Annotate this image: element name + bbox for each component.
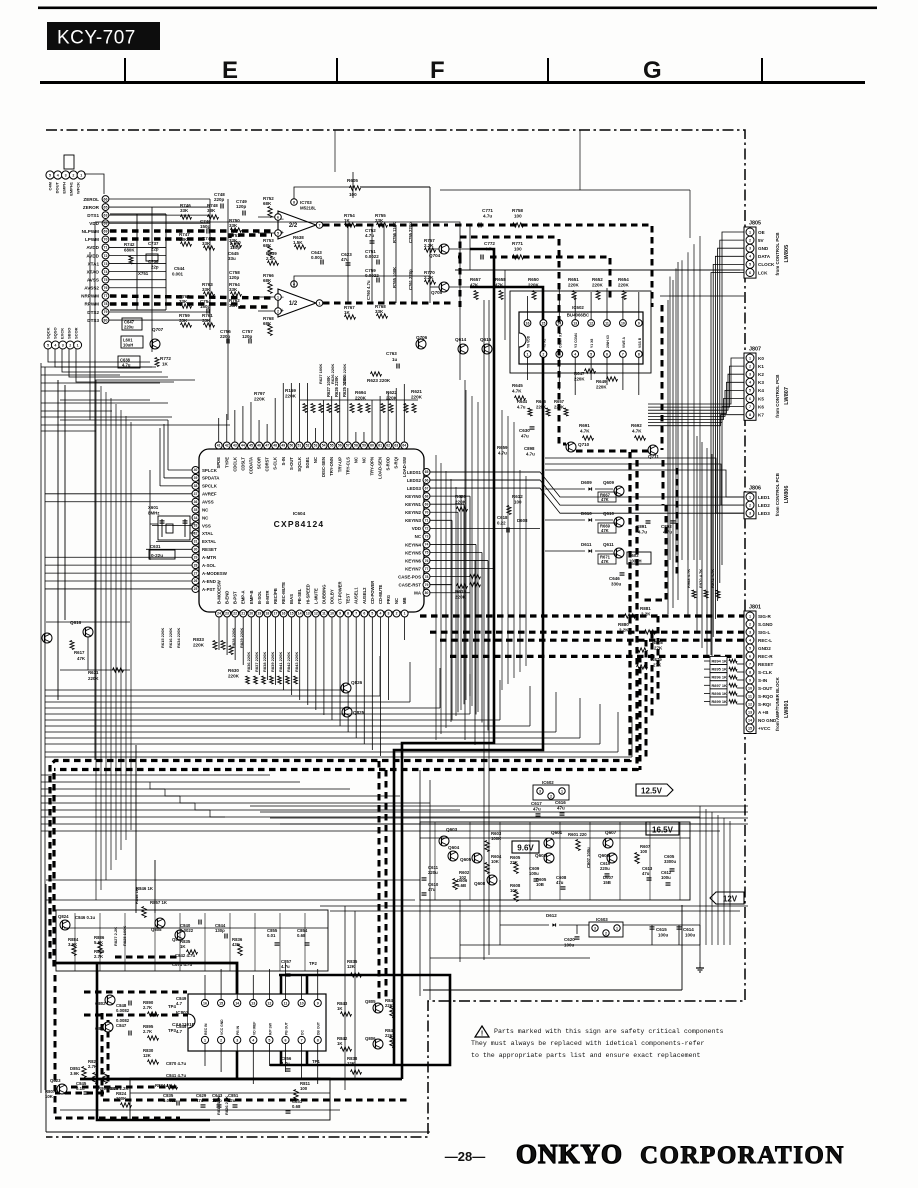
svg-text:4: 4: [574, 352, 576, 356]
svg-text:53: 53: [314, 444, 318, 448]
svg-text:2: 2: [605, 931, 607, 935]
R857 riser wire: [154, 860, 156, 913]
svg-text:R601 220: R601 220: [568, 832, 587, 837]
wire: [460, 495, 462, 710]
wire: [320, 905, 748, 907]
wire: [260, 811, 748, 813]
svg-text:220K: 220K: [596, 385, 607, 390]
svg-text:R970 4.7K: R970 4.7K: [698, 569, 703, 588]
svg-text:Q616: Q616: [70, 620, 82, 625]
wire: [483, 300, 485, 960]
svg-text:47K: 47K: [601, 528, 609, 533]
svg-text:73: 73: [104, 262, 108, 266]
svg-text:R650: R650: [528, 277, 539, 282]
D611 row wires: [545, 550, 585, 552]
svg-text:KEYIN5: KEYIN5: [405, 550, 421, 555]
svg-text:8: 8: [317, 1038, 319, 1042]
svg-text:R843 220K: R843 220K: [294, 652, 299, 672]
switch block dashed loop: [559, 239, 566, 444]
svg-text:SPDE: SPDE: [216, 457, 221, 469]
svg-text:SPLCK: SPLCK: [202, 468, 218, 473]
svg-text:K3: K3: [758, 380, 764, 385]
svg-text:RESET: RESET: [758, 662, 774, 667]
left block risers: [209, 199, 211, 330]
svg-text:71: 71: [104, 246, 108, 250]
svg-text:K4: K4: [758, 388, 764, 393]
IC604 pin 27 A-MODESW: [192, 570, 199, 577]
top-right dashed bus 1: [455, 225, 652, 307]
wire: [430, 957, 590, 959]
safety warning triangle: [475, 1026, 489, 1037]
svg-text:4.7K: 4.7K: [512, 389, 522, 394]
svg-text:LCK: LCK: [758, 270, 768, 275]
svg-text:XTAO: XTAO: [87, 269, 100, 274]
J801 pin 4 REC-L: [746, 636, 754, 644]
wire: [440, 463, 442, 734]
IC803 pin 11: [282, 999, 289, 1006]
power cluster rails: [434, 822, 436, 900]
IC604 pin 38 SPCLK: [192, 482, 199, 489]
svg-text:1: 1: [561, 789, 563, 793]
svg-text:ZEROL: ZEROL: [83, 197, 99, 202]
svg-text:AVREF: AVREF: [202, 492, 217, 497]
svg-text:68: 68: [425, 494, 429, 498]
svg-text:R649: R649: [596, 379, 607, 384]
wire: [439, 668, 441, 708]
svg-text:R159: R159: [285, 388, 296, 393]
IC604 pin 57 TRY-CLS: [344, 442, 351, 449]
svg-text:SBSO: SBSO: [67, 328, 72, 339]
svg-text:Q704: Q704: [429, 253, 441, 258]
svg-text:from CONTROL PCB: from CONTROL PCB: [775, 375, 780, 418]
svg-text:1: 1: [277, 295, 279, 299]
svg-text:6: 6: [363, 612, 365, 616]
transistor Q711: [648, 445, 658, 455]
IC803 pin 16: [201, 999, 208, 1006]
svg-text:100: 100: [300, 1086, 308, 1091]
svg-text:14: 14: [235, 1001, 239, 1005]
wire: [488, 300, 490, 955]
svg-text:2: 2: [550, 794, 552, 798]
wire: [450, 479, 452, 722]
IC604 pin 18 B-MTR: [264, 610, 271, 617]
svg-text:30: 30: [194, 548, 198, 552]
wire: [677, 262, 679, 600]
svg-text:18: 18: [266, 612, 270, 616]
svg-text:15B: 15B: [603, 880, 611, 885]
svg-text:74: 74: [425, 543, 429, 547]
IC604 pin 79 CASE-RST: [423, 581, 430, 588]
svg-text:R879: R879: [651, 657, 662, 662]
svg-text:DOUT: DOUT: [55, 181, 60, 193]
svg-text:XTAL: XTAL: [202, 531, 213, 536]
wire: [455, 487, 457, 716]
svg-text:TP1: TP1: [312, 1059, 320, 1064]
svg-text:D609: D609: [581, 480, 592, 485]
IC604 pin 7 AUSEL1: [353, 610, 360, 617]
svg-text:47: 47: [265, 444, 269, 448]
transistor Q608: [487, 875, 497, 885]
svg-text:D608: D608: [517, 518, 528, 523]
svg-text:1: 1: [404, 612, 406, 616]
IC604 pin 11 DUBBING: [320, 610, 327, 617]
svg-text:SIG-R: SIG-R: [758, 614, 771, 619]
svg-text:10K: 10K: [491, 859, 500, 864]
svg-text:7: 7: [301, 1038, 303, 1042]
svg-text:R652: R652: [592, 277, 603, 282]
svg-text:36: 36: [194, 500, 198, 504]
svg-text:R651: R651: [568, 277, 579, 282]
svg-text:12K: 12K: [143, 1053, 152, 1058]
wire: [419, 770, 421, 996]
svg-text:1K: 1K: [162, 362, 169, 367]
svg-text:2/2: 2/2: [289, 223, 298, 229]
wire: [195, 803, 210, 810]
IC604 pin 46 SCOR: [256, 442, 263, 449]
svg-text:EXCK: EXCK: [60, 328, 65, 339]
svg-text:REC/PB: REC/PB: [273, 588, 278, 604]
svg-text:5: 5: [749, 646, 751, 650]
svg-text:R692: R692: [631, 423, 642, 428]
wire: [471, 396, 473, 706]
svg-text:IC604: IC604: [293, 511, 306, 516]
pin column right wires: [109, 198, 210, 200]
IC604 pin 63 S-RQI: [393, 442, 400, 449]
DSP connector wire: [84, 174, 104, 194]
svg-text:Q706: Q706: [416, 335, 428, 340]
J805 pin 6 LCK: [746, 269, 754, 277]
svg-text:R634 220K: R634 220K: [176, 628, 181, 648]
IC604 pin 76 KEYIN6: [423, 557, 430, 564]
svg-text:46: 46: [257, 444, 261, 448]
IC602 pin 12: [588, 320, 595, 327]
svg-text:0.0082: 0.0082: [116, 1008, 130, 1013]
svg-text:12: 12: [748, 702, 752, 706]
svg-text:150p: 150p: [200, 224, 211, 229]
svg-text:S-RQI: S-RQI: [758, 702, 771, 707]
svg-text:2: 2: [220, 1038, 222, 1042]
svg-text:76: 76: [425, 559, 429, 563]
svg-text:D612: D612: [546, 913, 557, 918]
wire: [409, 662, 411, 702]
svg-text:VD IREF: VD IREF: [252, 1022, 256, 1035]
svg-text:9.6V: 9.6V: [517, 843, 534, 852]
svg-text:R616 220K: R616 220K: [168, 628, 173, 648]
transistor Q707: [150, 339, 160, 349]
IC604 pin 31 EXTAL: [192, 538, 199, 545]
transistor Q614: [458, 344, 468, 354]
top-right dashed bus 2: [458, 237, 559, 257]
svg-text:8: 8: [749, 413, 751, 417]
IC604 pin 10 DOLBY: [328, 610, 335, 617]
svg-text:220K: 220K: [568, 283, 580, 288]
IC602 pin 8: [635, 351, 642, 358]
op-amp output buses: [323, 224, 448, 227]
svg-text:B-SOL: B-SOL: [257, 591, 262, 604]
svg-text:4: 4: [54, 343, 56, 347]
wire: [687, 252, 689, 560]
nested routing rectangles upper: [95, 222, 460, 380]
svg-text:NC: NC: [202, 507, 209, 512]
svg-text:7: 7: [622, 352, 624, 356]
svg-text:R657: R657: [554, 399, 565, 404]
svg-text:72: 72: [104, 254, 108, 258]
op-amp feedback wires: [294, 187, 353, 199]
svg-text:10B: 10B: [536, 882, 544, 887]
IC U803 CXA1101P body: [188, 994, 326, 1051]
IC604 pin 9 CT-POWER: [337, 610, 344, 617]
IC604 right pin wires: [430, 471, 540, 473]
svg-text:R621: R621: [411, 389, 422, 394]
svg-text:34: 34: [194, 516, 198, 520]
svg-text:OE: OE: [758, 230, 765, 235]
svg-text:GND2: GND2: [758, 646, 771, 651]
svg-text:35: 35: [194, 508, 198, 512]
wire: [60, 399, 150, 401]
svg-text:0.68: 0.68: [297, 933, 306, 938]
svg-text:C842 4.7u: C842 4.7u: [175, 953, 195, 958]
svg-text:32: 32: [194, 532, 198, 536]
svg-text:22: 22: [233, 612, 237, 616]
svg-text:24: 24: [217, 612, 221, 616]
IC604 pin 74 KEYIN4: [423, 541, 430, 548]
J806 harness wires: [545, 470, 744, 497]
svg-text:44: 44: [241, 444, 245, 448]
svg-text:7: 7: [355, 612, 357, 616]
svg-text:Q711: Q711: [648, 454, 659, 459]
svg-text:Q824: Q824: [58, 914, 69, 919]
transistor Q706: [416, 339, 426, 349]
svg-text:69: 69: [104, 230, 108, 234]
svg-text:R658: R658: [495, 277, 506, 282]
svg-text:69: 69: [425, 502, 429, 506]
wire: [250, 805, 748, 807]
J801 pin 3 SIG-L: [746, 628, 754, 636]
svg-text:3.9K: 3.9K: [70, 1071, 80, 1076]
svg-text:C847: C847: [116, 1023, 127, 1028]
svg-text:63: 63: [104, 213, 108, 217]
svg-text:100: 100: [640, 849, 648, 854]
voltage callout 12.5V: [636, 784, 673, 796]
svg-text:Q823: Q823: [50, 1078, 61, 1083]
IC803 pin 8: [314, 1036, 321, 1043]
inductor L601 10uH: [121, 336, 143, 348]
svg-text:AVSS2: AVSS2: [84, 286, 99, 291]
IC604 pin 78 CASE-POS: [423, 573, 430, 580]
svg-text:GND: GND: [758, 246, 769, 251]
svg-text:4.7K: 4.7K: [580, 429, 590, 434]
svg-text:5: 5: [749, 389, 751, 393]
svg-text:47u: 47u: [533, 807, 541, 812]
IC604 pin 32 XTAL: [192, 530, 199, 537]
svg-text:11: 11: [284, 1001, 288, 1005]
svg-text:20: 20: [249, 612, 253, 616]
svg-text:11: 11: [605, 321, 609, 325]
J801 pin 13 A +B: [746, 708, 754, 716]
DSP top connector: [46, 171, 54, 179]
svg-text:S-ROD: S-ROD: [386, 457, 391, 471]
svg-text:K7: K7: [758, 413, 764, 418]
column tick 4: [761, 58, 763, 81]
svg-text:C898: C898: [524, 446, 535, 451]
wire: [45, 743, 600, 745]
voltage callout 16.5V: [646, 822, 679, 835]
svg-text:LED2: LED2: [758, 503, 770, 508]
IC604 pin 1 MB: [401, 610, 408, 617]
svg-text:12: 12: [267, 1001, 271, 1005]
svg-text:1K: 1K: [337, 1041, 343, 1046]
main dashed bus pair horizontal: [50, 452, 630, 765]
svg-text:9: 9: [317, 1001, 319, 1005]
svg-text:C738: C738: [148, 259, 159, 264]
svg-text:TYPE: TYPE: [224, 457, 229, 468]
IC602 pin 1: [524, 351, 531, 358]
svg-text:NC: NC: [415, 534, 422, 539]
svg-text:C772: C772: [484, 241, 495, 246]
svg-text:BIAS: BIAS: [289, 594, 294, 604]
svg-text:10K: 10K: [510, 888, 519, 893]
svg-text:PB OUT: PB OUT: [285, 1021, 289, 1035]
svg-text:AVDD: AVDD: [86, 253, 99, 258]
svg-text:5: 5: [590, 352, 592, 356]
IC604 pin 52 SGB1: [304, 442, 311, 449]
svg-text:C630: C630: [519, 428, 530, 433]
column tick 3: [547, 58, 549, 81]
IC803 pin 10: [298, 999, 305, 1006]
svg-text:R691: R691: [579, 423, 590, 428]
IC604 pin 35 NC: [192, 506, 199, 513]
svg-text:R838 220K: R838 220K: [262, 652, 267, 672]
svg-text:EMPH1: EMPH1: [69, 181, 74, 196]
svg-text:31: 31: [194, 540, 198, 544]
svg-text:Q805: Q805: [365, 999, 376, 1004]
svg-text:49: 49: [281, 444, 285, 448]
IC604 pin 34 NC: [192, 514, 199, 521]
svg-text:CORPORATION: CORPORATION: [640, 1142, 845, 1169]
wire: [455, 269, 744, 271]
wire: [354, 911, 356, 1080]
wire: [344, 906, 346, 1090]
J806 pin 1 LED1: [746, 493, 754, 501]
IC602 pin 16: [524, 320, 531, 327]
svg-text:220u: 220u: [428, 870, 438, 875]
wire: [45, 689, 345, 691]
svg-text:F: F: [430, 57, 445, 84]
svg-text:CASE-POS: CASE-POS: [398, 574, 421, 579]
middle dashed risers: [662, 460, 665, 505]
svg-text:KEYIN4: KEYIN4: [405, 542, 421, 547]
transistor Q607: [603, 838, 613, 848]
svg-text:220K: 220K: [285, 394, 297, 399]
wire: [525, 476, 527, 666]
svg-text:R827 2.2K: R827 2.2K: [113, 927, 118, 946]
svg-text:Q610: Q610: [603, 511, 615, 516]
IC604 pin 28 A-SOL: [192, 562, 199, 569]
svg-text:33K: 33K: [202, 241, 211, 246]
svg-text:R857 1K: R857 1K: [150, 900, 168, 905]
svg-text:11: 11: [322, 612, 326, 616]
svg-text:59: 59: [362, 444, 366, 448]
svg-text:23: 23: [225, 612, 229, 616]
svg-text:13: 13: [573, 321, 577, 325]
svg-text:12K: 12K: [347, 1061, 356, 1066]
svg-text:8: 8: [293, 200, 295, 204]
svg-text:78: 78: [425, 575, 429, 579]
svg-text:EMPH: EMPH: [62, 182, 67, 194]
resistor row bus wire: [455, 269, 740, 271]
bus RPWM dashed: [110, 304, 272, 307]
IC602 pin restamp over bus: [540, 320, 547, 327]
svg-text:R645: R645: [512, 383, 523, 388]
svg-text:62: 62: [386, 444, 390, 448]
wire: [46, 879, 420, 881]
svg-text:R968 4.7K: R968 4.7K: [686, 569, 691, 588]
main solid bus top feeds: [470, 249, 494, 302]
svg-text:71: 71: [425, 519, 429, 523]
svg-text:SQSO: SQSO: [53, 327, 58, 339]
wire: [41, 816, 700, 818]
J807 pin 4 K3: [746, 378, 754, 386]
resistor R667 47K: [598, 492, 616, 502]
svg-text:LW806: LW806: [784, 485, 790, 503]
svg-text:R659: R659: [497, 445, 508, 450]
svg-text:R622: R622: [386, 390, 397, 395]
wire: [41, 788, 350, 790]
wire: [45, 719, 500, 721]
svg-text:B-MTR: B-MTR: [265, 591, 270, 605]
svg-text:S-IN: S-IN: [758, 678, 768, 683]
svg-text:33u: 33u: [228, 256, 236, 261]
Q616 wires: [46, 621, 130, 623]
svg-text:130p: 130p: [215, 928, 225, 933]
wire x95 long riser: [94, 360, 96, 760]
svg-text:S-RQI: S-RQI: [394, 457, 399, 469]
svg-text:8: 8: [347, 612, 349, 616]
J801 pin 8 S-CLK: [746, 668, 754, 676]
svg-text:2.7K: 2.7K: [88, 1064, 98, 1069]
svg-text:R627 100K: R627 100K: [318, 364, 323, 384]
left frame vertical: [45, 884, 47, 1132]
svg-text:CXP84124: CXP84124: [274, 519, 325, 529]
wire: [45, 713, 470, 715]
svg-text:LED3: LED3: [758, 511, 770, 516]
svg-text:Q826: Q826: [351, 680, 363, 685]
wire: [669, 277, 671, 561]
svg-text:100: 100: [514, 247, 522, 252]
svg-text:WFCK: WFCK: [76, 182, 81, 194]
IC604 pin 12 L-MUTE: [312, 610, 319, 617]
svg-text:100: 100: [349, 192, 357, 197]
svg-text:7: 7: [749, 405, 751, 409]
connector J805: [744, 227, 756, 278]
transistor Q616: [83, 627, 93, 637]
wire: [729, 821, 731, 945]
svg-text:DB OUT: DB OUT: [317, 1021, 321, 1035]
svg-text:47u: 47u: [196, 1098, 204, 1103]
IC604 pin 21 EMP-A: [240, 610, 247, 617]
svg-text:75: 75: [425, 551, 429, 555]
svg-text:ZEROR: ZEROR: [83, 205, 100, 210]
svg-text:KEYIN7: KEYIN7: [405, 566, 421, 571]
sig bus risers dashed: [657, 616, 660, 700]
wire: [465, 390, 467, 700]
svg-text:5: 5: [47, 343, 49, 347]
svg-text:220K: 220K: [254, 397, 266, 402]
svg-text:1: 1: [749, 614, 751, 618]
svg-text:2.7K: 2.7K: [143, 1005, 153, 1010]
svg-text:KEYIN0: KEYIN0: [405, 494, 421, 499]
svg-text:CDSLT: CDSLT: [240, 457, 245, 471]
